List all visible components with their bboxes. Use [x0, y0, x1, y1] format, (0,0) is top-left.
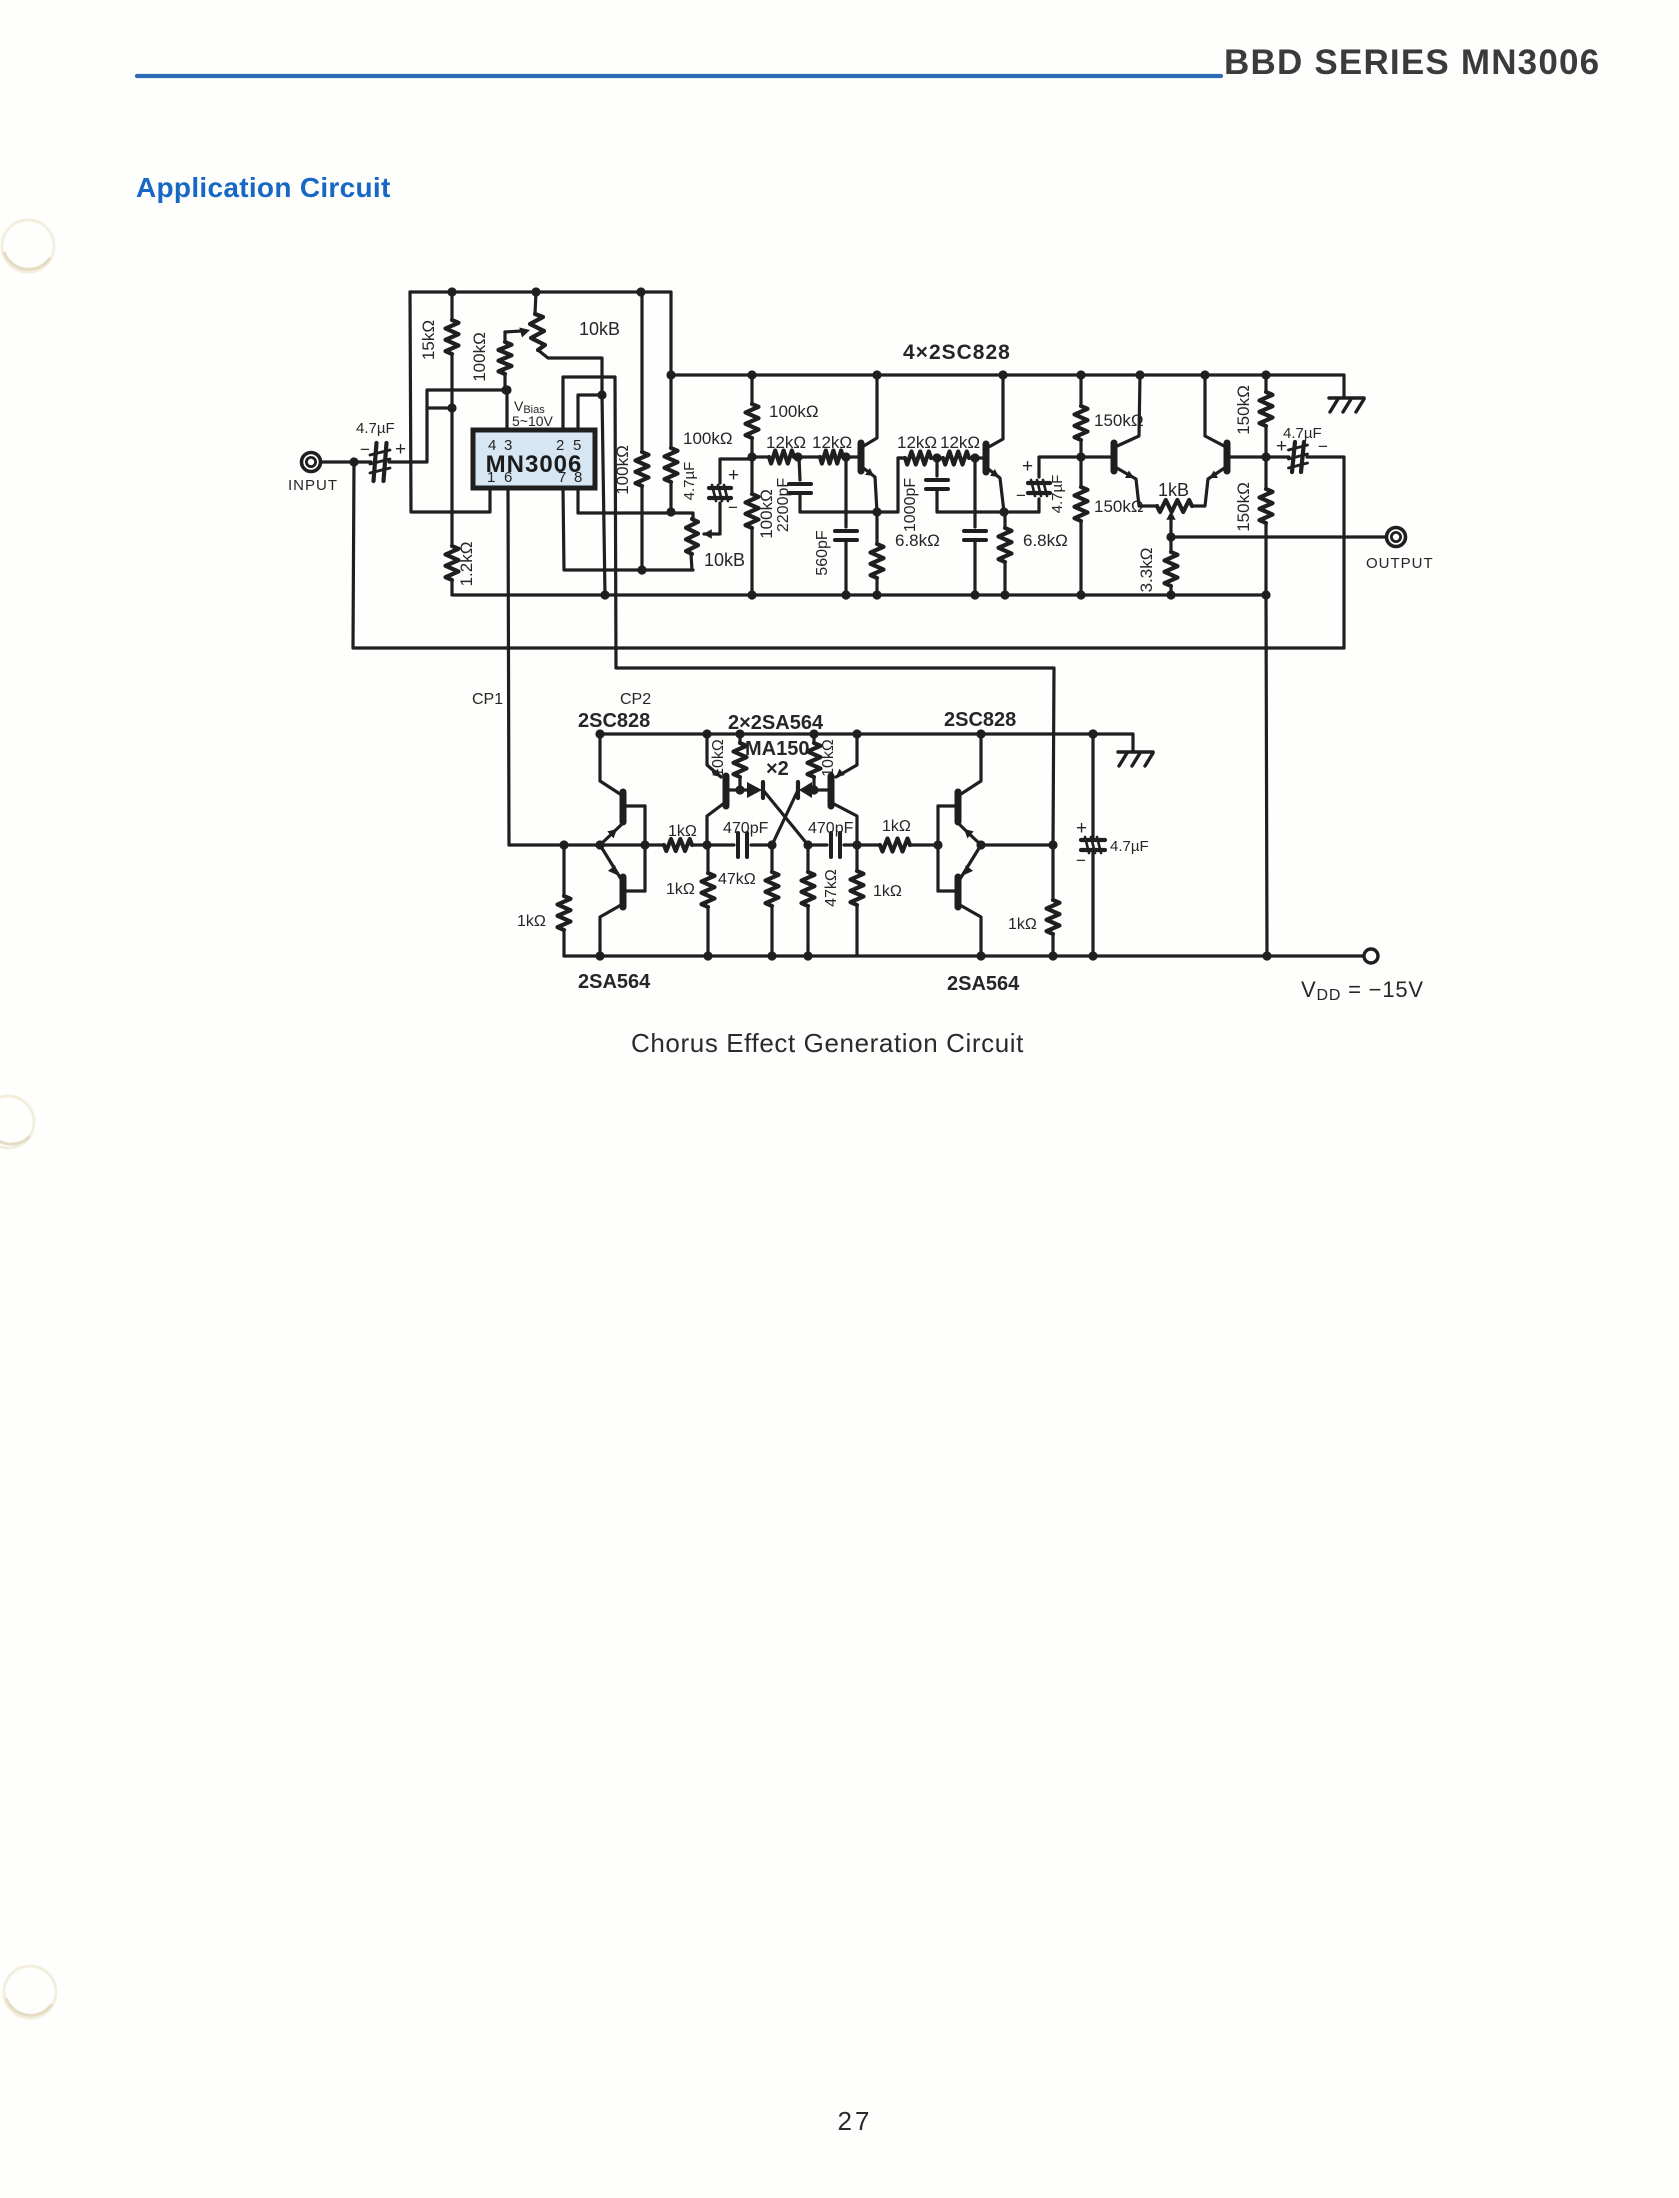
label VR3 1kB — [1158, 480, 1189, 500]
page header rule (blue) — [137, 74, 1221, 78]
label C5 1000pF — [902, 478, 919, 532]
node C10 right — [852, 840, 861, 849]
node R27 bottom — [1048, 951, 1057, 960]
resistor R12 12k — [937, 452, 975, 465]
svg-text:4.7µF: 4.7µF — [1049, 475, 1066, 514]
resistor R19 1k (left pair bias) — [558, 845, 571, 956]
label C11 plus — [1076, 818, 1087, 839]
label R13 6.8kΩ — [1023, 531, 1068, 550]
svg-text:10kΩ: 10kΩ — [710, 739, 727, 777]
node bottom rail R10 — [872, 590, 881, 599]
label R24 47kΩ — [823, 869, 840, 907]
svg-text:12kΩ: 12kΩ — [766, 433, 806, 452]
label R10 6.8kΩ — [895, 531, 940, 550]
svg-text:2SC828: 2SC828 — [578, 710, 650, 732]
svg-text:12kΩ: 12kΩ — [897, 433, 937, 452]
potentiometer VR2 10kB — [686, 519, 698, 570]
resistor R26 1k (right coupling) — [857, 839, 938, 852]
label x2 — [766, 758, 789, 780]
wire IC pin2 clock CP2 route — [563, 377, 1054, 847]
capacitor C4 560pF — [835, 457, 857, 595]
label R9 12kΩ — [812, 433, 852, 452]
label C2 value 4.7µF — [681, 462, 698, 501]
wire IC pin7 route — [563, 488, 693, 570]
svg-text:10kB: 10kB — [704, 550, 745, 570]
svg-text:100kΩ: 100kΩ — [613, 445, 632, 495]
node base link crossing — [640, 840, 649, 849]
wire D1 cross link — [763, 790, 808, 845]
resistor R5 100k (rail corner to pin8 line) — [665, 292, 678, 512]
svg-text:470pF: 470pF — [723, 820, 769, 837]
transistor Q3 2SC828 — [1081, 375, 1157, 506]
svg-text:560pF: 560pF — [814, 530, 831, 576]
resistor R23 10k (right) — [808, 734, 821, 790]
node Q1 base node — [841, 452, 850, 461]
svg-text:27: 27 — [838, 2106, 873, 2136]
label C11 minus — [1076, 851, 1086, 870]
label OUTPUT — [1366, 555, 1434, 572]
node pin5 junction — [597, 390, 606, 399]
caption Chorus Effect Generation Circuit — [631, 1028, 1024, 1058]
node right pair base node — [933, 840, 942, 849]
node left pair bottom collector — [595, 951, 604, 960]
resistor R22 10k (left) — [734, 734, 747, 790]
capacitor C7 4.7uF interstage — [1004, 457, 1081, 512]
node R3 bottom to VBias — [501, 385, 510, 394]
label R21 47kΩ — [718, 871, 756, 888]
label C7 value 4.7µF — [1049, 475, 1066, 514]
node R21 bottom — [767, 951, 776, 960]
capacitor C3 2200pF — [789, 457, 877, 512]
label R8 12kΩ — [766, 433, 806, 452]
node input split — [349, 457, 358, 466]
node left pair emitter junction — [595, 840, 604, 849]
wire pot2 wiper to bias cap to 12k chain — [703, 459, 753, 539]
potentiometer VR1 10kB — [530, 292, 602, 395]
svg-text:Chorus Effect Generation Ci: Chorus Effect Generation Circuit — [631, 1028, 1024, 1058]
diode D2 MA150 — [798, 782, 814, 798]
wire D2 cross link — [772, 790, 798, 845]
node VBias divider tap — [447, 403, 456, 412]
svg-text:100kΩ: 100kΩ — [470, 332, 489, 382]
page header title BBD SERIES MN3006 — [1224, 43, 1600, 82]
resistor R9 12k — [799, 451, 846, 464]
svg-text:6.8kΩ: 6.8kΩ — [895, 531, 940, 550]
wire signal return line — [354, 646, 1344, 649]
resistor R21 47k (left) — [766, 845, 779, 956]
label 4x2SC828 — [903, 341, 1011, 364]
label VR1 10kB — [579, 319, 620, 339]
input jack J1 — [302, 453, 321, 472]
node bottom rail C6 — [970, 590, 979, 599]
label R5 100kΩ — [683, 429, 733, 448]
svg-text:1kB: 1kB — [1158, 480, 1189, 500]
label R4 100kΩ — [613, 445, 632, 495]
wire emitter node to CP2 drop — [981, 843, 1053, 846]
node VBias at pin3 riser — [502, 385, 511, 394]
label INPUT — [288, 477, 338, 494]
wire right pair base link — [936, 806, 939, 891]
svg-text:1kΩ: 1kΩ — [882, 818, 911, 835]
svg-text:100kΩ: 100kΩ — [769, 402, 819, 421]
node on top rail at 15k — [447, 287, 456, 296]
svg-text:×2: ×2 — [766, 758, 789, 780]
resistor R18 3.3k — [1165, 537, 1178, 595]
label 2SA564 left — [578, 971, 651, 993]
svg-text:1.2kΩ: 1.2kΩ — [457, 542, 476, 587]
svg-text:BBD SERIES MN3006: BBD SERIES MN3006 — [1224, 43, 1600, 82]
resistor R2 1.2k — [446, 408, 459, 595]
label C7 plus — [1022, 456, 1033, 477]
svg-text:CP2: CP2 — [620, 691, 651, 708]
wire VR3 wiper — [1166, 511, 1175, 537]
svg-text:−: − — [360, 440, 370, 459]
transistor Q9 2SC828 (right top) — [938, 734, 981, 845]
node bottom rail R13 — [1000, 590, 1009, 599]
node bottom rail R15 — [1076, 590, 1085, 599]
svg-text:−: − — [1076, 851, 1086, 870]
transistor Q8 2SA564 (left bottom) — [600, 845, 645, 956]
node 1k-a tap — [559, 840, 568, 849]
label R11 12kΩ — [897, 433, 937, 452]
wire pot1 wiper — [505, 328, 530, 338]
resistor R6 100k (rail to stage1 input) — [746, 375, 759, 457]
capacitor C2 4.7uF bias — [709, 485, 731, 501]
node C9 left — [702, 840, 711, 849]
wire stage1 to stage2 coupling — [877, 458, 903, 512]
label R19 1kΩ — [517, 913, 546, 930]
node C11 bottom — [1088, 951, 1097, 960]
node R24 bottom — [803, 951, 812, 960]
wire IC pin3 drop — [505, 390, 508, 430]
label R22 10kΩ — [710, 739, 727, 777]
punch hole bottom-left — [4, 1966, 56, 2018]
ground symbol G1 — [1329, 398, 1364, 412]
label R25 1kΩ — [873, 883, 902, 900]
label C2 plus — [728, 465, 739, 486]
node bottom rail pot1 leg — [600, 590, 609, 599]
resistor R7 100k feedback — [746, 457, 759, 595]
label R12 12kΩ — [940, 433, 980, 452]
wire top supply rail — [410, 290, 670, 293]
transistor Q1 2SC828 — [846, 375, 877, 512]
label C8 value 4.7µF — [1283, 425, 1322, 442]
wire R20 to C9 node — [692, 843, 707, 846]
diode D1 MA150 — [740, 782, 763, 798]
wire VBias tee to 15k node — [427, 406, 452, 409]
svg-text:470pF: 470pF — [808, 820, 854, 837]
svg-text:150kΩ: 150kΩ — [1094, 411, 1144, 430]
node bottom rail 100k-e — [747, 590, 756, 599]
svg-text:10kB: 10kB — [579, 319, 620, 339]
capacitor C11 4.7uF LFO — [1081, 734, 1105, 956]
svg-text:1kΩ: 1kΩ — [1008, 916, 1037, 933]
node pin8 line at 100k-c — [666, 507, 675, 516]
node Q1 collector rail — [872, 370, 881, 379]
punch hole middle-left — [0, 1096, 34, 1148]
svg-text:2SA564: 2SA564 — [578, 971, 651, 993]
label R28 1kΩ — [666, 881, 695, 898]
node C7 rail tap — [1076, 370, 1085, 379]
node diode D1 anode — [735, 785, 744, 794]
node output wiper — [1166, 532, 1175, 541]
label C1 minus — [360, 440, 370, 459]
label CP2 — [620, 691, 651, 708]
svg-text:2SA564: 2SA564 — [947, 973, 1020, 995]
node 1000pF tap — [932, 453, 941, 462]
node on top rail at 100k (CP buffer) — [636, 287, 645, 296]
node Q2 emitter — [999, 507, 1008, 516]
node bottom rail C4 — [841, 590, 850, 599]
svg-text:1kΩ: 1kΩ — [668, 823, 697, 840]
transistor Q5 2SA564 (center left) — [707, 734, 740, 845]
node 2200pF tap — [793, 452, 802, 461]
node R18 bottom — [1166, 590, 1175, 599]
label R14 150kΩ — [1094, 411, 1144, 430]
node pin7 line at 100k-b — [637, 565, 646, 574]
capacitor C9 470pF — [707, 833, 772, 857]
wire left pair base link — [643, 806, 646, 891]
node LFO rail left — [595, 729, 604, 738]
node bottom rail long vertical — [1262, 951, 1271, 960]
node C11 top — [1088, 729, 1097, 738]
resistor R20 1k (left coupling) — [664, 839, 692, 851]
svg-text:150kΩ: 150kΩ — [1234, 385, 1253, 435]
svg-text:VDD = −15V: VDD = −15V — [1301, 977, 1424, 1004]
resistor R11 12k — [898, 452, 937, 465]
label R3 100kΩ — [470, 332, 489, 382]
svg-text:3.3kΩ: 3.3kΩ — [1137, 548, 1156, 593]
svg-text:Application Circuit: Application Circuit — [136, 172, 391, 203]
label R16 150kΩ — [1234, 385, 1253, 435]
svg-text:1kΩ: 1kΩ — [517, 913, 546, 930]
node R6 rail tap — [747, 370, 756, 379]
resistor R1 15k — [446, 292, 459, 408]
wire pot1 leg down to bottom rail — [602, 395, 605, 595]
wire LFO bottom rail — [564, 954, 1362, 957]
svg-text:2200pF: 2200pF — [775, 478, 792, 532]
svg-text:+: + — [728, 465, 739, 486]
node C9 right / cross node L — [767, 840, 776, 849]
label C8 minus — [1318, 437, 1328, 456]
node diode D2 cathode junction — [809, 785, 818, 794]
label 2SC828 right pair — [944, 709, 1016, 731]
label C8 plus — [1276, 436, 1287, 457]
punch hole top-left — [2, 220, 54, 272]
transistor Q10 2SA564 (right bottom) — [938, 845, 981, 956]
svg-text:4×2SC828: 4×2SC828 — [903, 341, 1011, 364]
wire LFO base line from CP1 — [509, 843, 664, 846]
output jack J2 — [1387, 528, 1406, 547]
label C4 560pF — [814, 530, 831, 576]
node Q3 collector rail — [1135, 370, 1144, 379]
node Q1 emitter — [872, 507, 881, 516]
node Q2 base node — [970, 453, 979, 462]
node LFO rail Q5 emitter — [702, 729, 711, 738]
svg-text:1000pF: 1000pF — [902, 478, 919, 532]
svg-text:100kΩ: 100kΩ — [757, 489, 776, 539]
node stage1 input — [747, 452, 756, 461]
wire LFO top rail — [598, 734, 1133, 751]
label R2 1.2kΩ — [457, 542, 476, 587]
resistor R14 150k upper — [1075, 375, 1088, 457]
label R23 10kΩ — [820, 739, 837, 777]
wire input jack to coupling cap — [321, 460, 371, 463]
wire output line — [1171, 535, 1385, 538]
node LFO rail C11 — [1088, 729, 1097, 738]
wire IC pin6 clock CP1 drop — [508, 488, 509, 845]
resistor R25 1k (right pair bias vert) — [851, 845, 864, 956]
label C7 minus — [1016, 486, 1026, 505]
section heading Application Circuit — [136, 172, 391, 203]
transistor Q4 2SC828 — [1192, 375, 1266, 506]
resistor R4 100k (rail to pin7 line) — [636, 292, 649, 570]
label CP1 — [472, 691, 503, 708]
svg-text:MN3006: MN3006 — [486, 451, 583, 478]
svg-text:MA150: MA150 — [745, 738, 809, 760]
label C1 value 4.7µF — [356, 420, 395, 437]
node on top rail at 10kB pot — [531, 287, 540, 296]
capacitor C1 4.7uF input coupling — [370, 443, 390, 481]
label R20 1kΩ — [668, 823, 697, 840]
svg-text:+: + — [1276, 436, 1287, 457]
svg-text:150kΩ: 150kΩ — [1094, 497, 1144, 516]
label VR2 10kB — [704, 550, 745, 570]
label R6 100kΩ — [769, 402, 819, 421]
wire bottom rail of amp section — [453, 595, 1267, 956]
terminal VDD — [1364, 949, 1378, 963]
svg-text:47kΩ: 47kΩ — [718, 871, 756, 888]
wire IC pin8 route — [578, 488, 693, 519]
wire cap to VBias riser — [389, 390, 507, 462]
label 2SC828 left pair — [578, 710, 650, 732]
resistor R28 1k (left pair load) — [702, 845, 715, 956]
label C1 plus — [395, 439, 406, 460]
svg-text:4.7µF: 4.7µF — [681, 462, 698, 501]
svg-text:100kΩ: 100kΩ — [683, 429, 733, 448]
svg-text:1kΩ: 1kΩ — [666, 881, 695, 898]
svg-text:OUTPUT: OUTPUT — [1366, 555, 1434, 572]
svg-text:CP1: CP1 — [472, 691, 503, 708]
node Q2 collector rail — [998, 370, 1007, 379]
IC U1 MN3006 — [473, 430, 595, 488]
resistor R27 1k (CP2 bias) — [1047, 845, 1060, 956]
label R7 100kΩ — [757, 489, 776, 539]
node LFO rail 10k-L — [735, 729, 744, 738]
node LFO rail Q6 emitter — [852, 729, 861, 738]
capacitor C10 470pF — [831, 833, 857, 857]
node Q4 base node — [1261, 452, 1270, 461]
label C11 value 4.7µF — [1110, 838, 1149, 855]
svg-text:2×2SA564: 2×2SA564 — [728, 712, 824, 734]
wire cross node R to C10 — [808, 843, 827, 846]
node cross node R — [803, 840, 812, 849]
node LFO rail right pair — [976, 729, 985, 738]
resistor R13 6.8k emitter — [999, 512, 1012, 595]
node LFO rail 10k-R — [809, 729, 818, 738]
label R18 3.3kΩ — [1137, 548, 1156, 593]
svg-text:2SC828: 2SC828 — [944, 709, 1016, 731]
svg-text:+: + — [395, 439, 406, 460]
wire second supply rail — [671, 375, 1344, 397]
svg-text:−: − — [728, 498, 738, 517]
label R15 150kΩ — [1094, 497, 1144, 516]
svg-text:10kΩ: 10kΩ — [820, 739, 837, 777]
label C9 470pF — [723, 820, 769, 837]
label C2 minus — [728, 498, 738, 517]
wire input node down to return line — [353, 462, 354, 648]
potentiometer VR3 1kB — [1157, 500, 1192, 512]
svg-text:5~10V: 5~10V — [512, 413, 554, 429]
capacitor C5 1000pF — [926, 458, 1004, 512]
svg-text:4.7µF: 4.7µF — [1283, 425, 1322, 442]
transistor Q6 2SA564 (center right) — [814, 734, 857, 845]
resistor R16 150k (Q4 upper) — [1260, 375, 1273, 457]
resistor R15 150k lower — [1075, 457, 1088, 595]
node right pair bottom collector — [976, 951, 985, 960]
resistor R8 12k — [752, 451, 799, 464]
svg-text:6.8kΩ: 6.8kΩ — [1023, 531, 1068, 550]
node bottom rail corner — [1261, 590, 1270, 599]
resistor R24 47k (right) — [802, 845, 815, 956]
svg-text:INPUT: INPUT — [288, 477, 338, 494]
label 2SA564 right — [947, 973, 1020, 995]
svg-text:+: + — [1022, 456, 1033, 477]
wire IC pin5 route — [578, 395, 602, 430]
svg-text:+: + — [1076, 818, 1087, 839]
node second rail start — [666, 370, 675, 379]
label VBias — [514, 398, 545, 416]
capacitor C6 (base bypass) — [964, 458, 986, 595]
label 2x2SA564 — [728, 712, 824, 734]
transistor Q7 2SC828 (left top) — [600, 734, 645, 845]
resistor R10 6.8k emitter — [871, 512, 884, 595]
svg-text:15kΩ: 15kΩ — [419, 320, 438, 360]
label C3 2200pF — [775, 478, 792, 532]
svg-text:−: − — [1016, 486, 1026, 505]
label R17 150kΩ — [1234, 482, 1253, 532]
svg-text:1kΩ: 1kΩ — [873, 883, 902, 900]
label R26 1kΩ — [882, 818, 911, 835]
label VDD = -15V — [1301, 977, 1424, 1004]
svg-text:−: − — [1318, 437, 1328, 456]
node second rail at 150k-3 — [1261, 370, 1270, 379]
label R1 15kΩ — [419, 320, 438, 360]
svg-text:47kΩ: 47kΩ — [823, 869, 840, 907]
transistor Q2 2SC828 — [975, 375, 1004, 512]
wire left rail down to pin1 link — [410, 292, 490, 512]
node R28 bottom — [703, 951, 712, 960]
svg-text:4.7µF: 4.7µF — [356, 420, 395, 437]
svg-text:12kΩ: 12kΩ — [812, 433, 852, 452]
svg-text:12kΩ: 12kΩ — [940, 433, 980, 452]
svg-text:4.7µF: 4.7µF — [1110, 838, 1149, 855]
svg-text:150kΩ: 150kΩ — [1234, 482, 1253, 532]
label MA150 — [745, 738, 809, 760]
label VBias range 5~10V — [512, 413, 554, 429]
label C10 470pF — [808, 820, 854, 837]
capacitor C8 4.7uF output — [1266, 442, 1344, 648]
node Q4 collector rail — [1200, 370, 1209, 379]
ground symbol G2 — [1118, 752, 1153, 766]
resistor R17 150k (Q4 lower) — [1260, 457, 1273, 595]
node Q3 base feed — [1076, 452, 1085, 461]
resistor R3 100k (bias to pot1 wiper) — [499, 332, 512, 390]
page number 27 — [838, 2106, 873, 2136]
node CP2 at LFO — [1048, 840, 1057, 849]
node right pair emitter junction — [976, 840, 985, 849]
label R27 1kΩ — [1008, 916, 1037, 933]
